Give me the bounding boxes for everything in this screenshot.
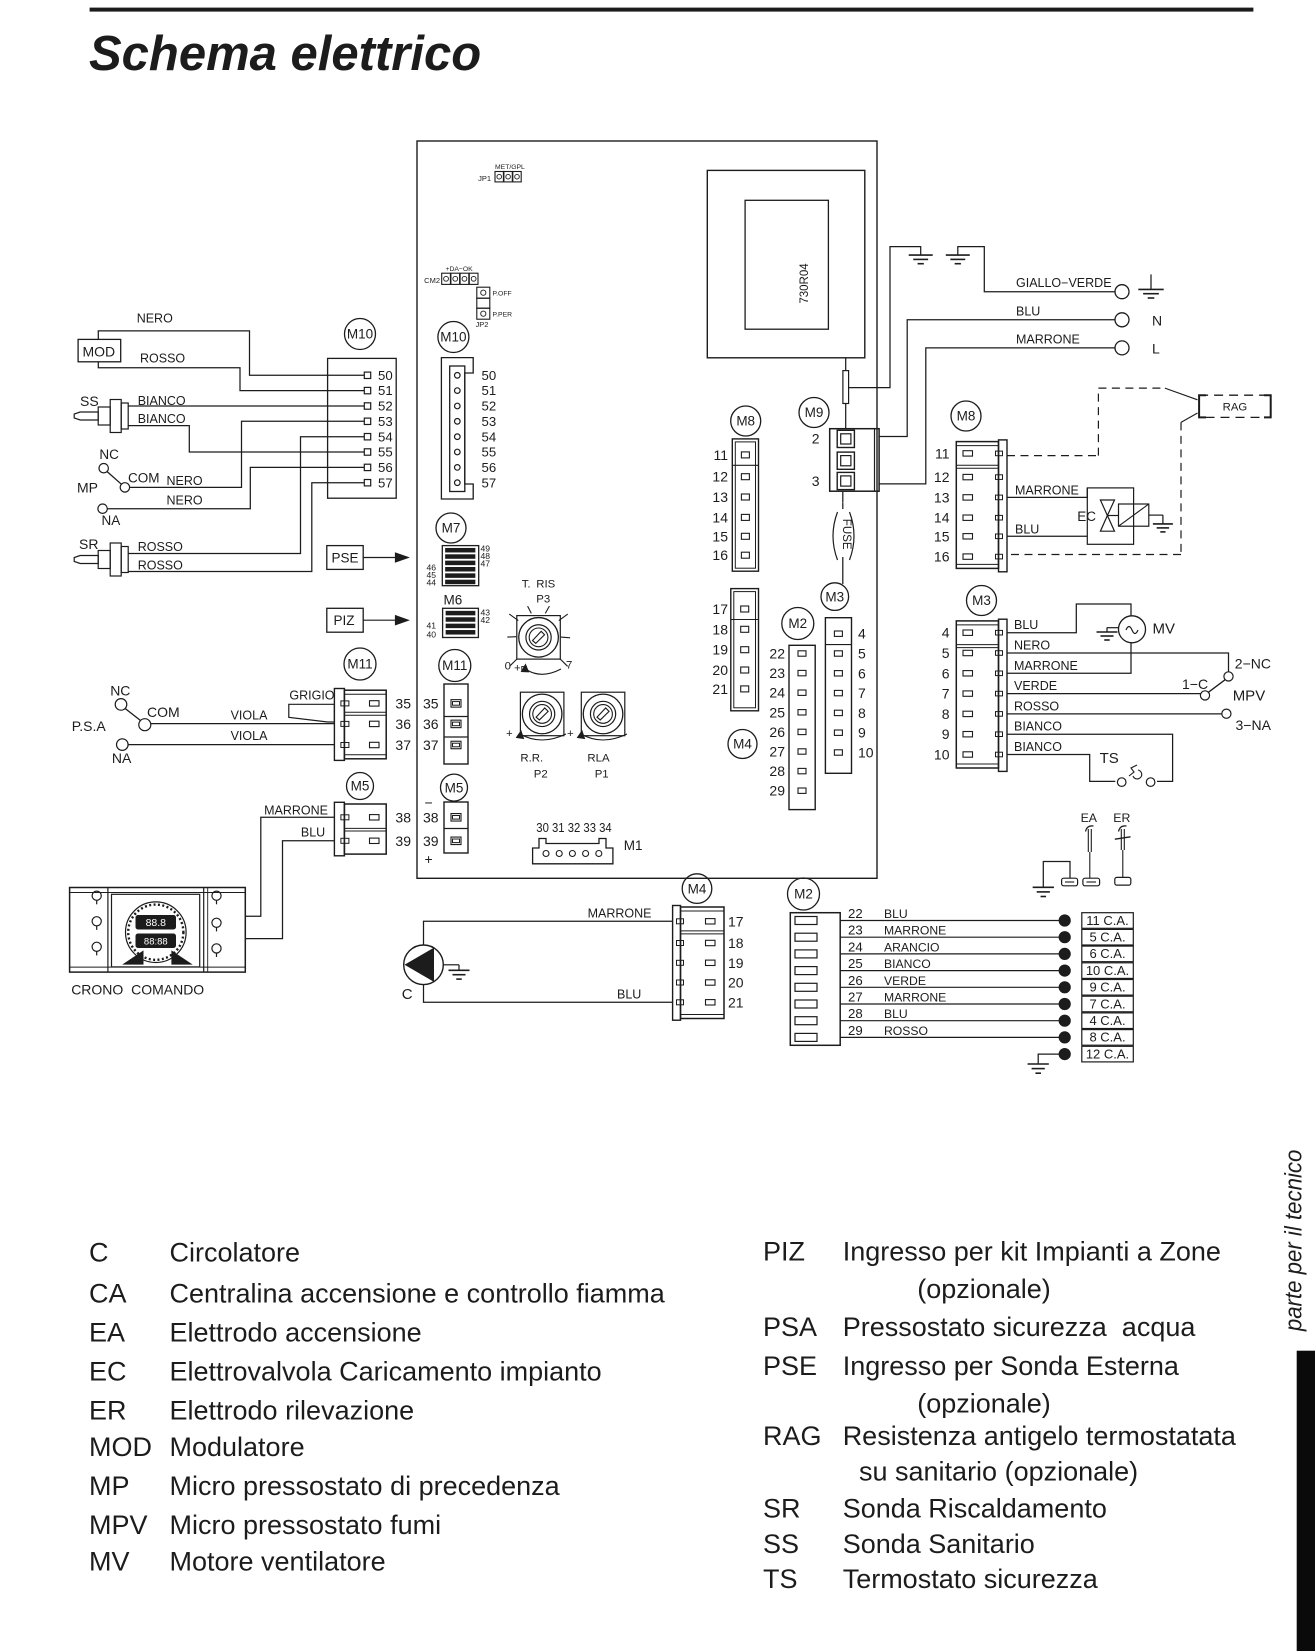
svg-text:4: 4 (858, 626, 866, 642)
connector M7 ribbon block (442, 546, 478, 586)
electrode EA (1086, 826, 1094, 878)
svg-text:JP1: JP1 (478, 174, 491, 183)
svg-text:57: 57 (482, 475, 497, 490)
svg-text:M2: M2 (788, 616, 807, 631)
svg-text:M3: M3 (972, 593, 991, 608)
wire NERO from MOD to M10 pin 50 (98, 331, 364, 375)
svg-text:su sanitario (opzionale): su sanitario (opzionale) (859, 1456, 1138, 1486)
svg-text:16: 16 (712, 547, 728, 563)
svg-text:Elettrovalvola Caricamento imp: Elettrovalvola Caricamento impianto (170, 1357, 602, 1387)
connector M4 harness pin numbers 17-21 (728, 913, 744, 1010)
wire M9 to fuse (842, 491, 844, 503)
potentiometer P1 (RLA) (581, 692, 625, 736)
connector M3 harness-side shell with pins (956, 619, 1007, 771)
connector block 8 C.A. (1082, 1030, 1134, 1046)
earth ground symbol 1 (909, 246, 933, 264)
arrow PIZ to board (363, 616, 408, 625)
svg-text:M6: M6 (444, 593, 463, 608)
svg-text:CRONO COMANDO: CRONO COMANDO (71, 982, 204, 998)
wire label ARANCIO (M2 pin 24) (884, 940, 940, 954)
svg-text:P1: P1 (595, 768, 609, 780)
switch MPV lever (1209, 680, 1226, 692)
svg-text:6: 6 (942, 665, 950, 681)
svg-text:37: 37 (395, 737, 411, 753)
connector label M8 (board side) (731, 406, 761, 436)
svg-text:7 C.A.: 7 C.A. (1089, 996, 1125, 1011)
connector label M11 (harness side) (344, 648, 376, 680)
potentiometer P2 (R.R.) (520, 692, 564, 736)
contact PSA COM (139, 704, 180, 731)
svg-text:P3: P3 (536, 594, 550, 606)
svg-text:12: 12 (934, 469, 950, 485)
svg-text:22: 22 (848, 906, 863, 921)
svg-text:11 C.A.: 11 C.A. (1086, 913, 1128, 928)
svg-text:28: 28 (769, 763, 785, 779)
svg-text:Elettrodo accensione: Elettrodo accensione (170, 1318, 422, 1348)
wire MARRONE from M2 pin 27 to CA node (840, 1003, 1059, 1005)
connector label M4 (harness side) (682, 874, 712, 904)
svg-text:ER: ER (1113, 811, 1130, 825)
svg-text:1−C: 1−C (1182, 676, 1208, 692)
svg-text:M10: M10 (347, 327, 373, 342)
svg-text:27: 27 (848, 990, 863, 1005)
connector M10 harness pins 50-57 with numbers (364, 368, 392, 490)
wire label BIANCO (SS top) (138, 394, 186, 408)
svg-text:26: 26 (769, 724, 785, 740)
label TS (1100, 750, 1119, 767)
svg-text:parte per il tecnico: parte per il tecnico (1281, 1150, 1308, 1332)
svg-text:ROSSO: ROSSO (138, 540, 183, 554)
svg-text:15: 15 (712, 528, 728, 544)
wire label MARRONE (pump) (588, 906, 652, 920)
wire label GIALLO-VERDE (1016, 276, 1112, 290)
pin number 24 (848, 939, 863, 954)
contact MPV 2-NC (1224, 656, 1271, 682)
svg-text:4 C.A.: 4 C.A. (1089, 1013, 1125, 1028)
svg-text:0: 0 (505, 661, 511, 673)
svg-text:Sonda Riscaldamento: Sonda Riscaldamento (843, 1494, 1107, 1524)
pin number 22 (848, 906, 863, 921)
wire label VIOLA (top) (231, 709, 268, 723)
wire BLU from M2 pin 22 to CA node (840, 920, 1059, 922)
wire NERO from MP COM to M10 pin 53 (130, 421, 365, 487)
svg-text:22: 22 (769, 646, 785, 662)
connector M3 harness pin numbers 4-10 (934, 625, 950, 763)
svg-text:39: 39 (423, 833, 439, 849)
wire BLU from M2 pin 28 to CA node (840, 1020, 1059, 1022)
wire label BLU (mains N) (1016, 304, 1040, 318)
svg-text:BLU: BLU (1015, 522, 1039, 536)
svg-text:14: 14 (712, 509, 728, 525)
svg-text:13: 13 (712, 489, 728, 505)
svg-text:PSA: PSA (763, 1312, 817, 1342)
wire VERDE from M3 pin 7 to MPV C (1007, 693, 1200, 695)
connector block 11 C.A. (1082, 913, 1134, 929)
jumper JP1 label MET/GPL (478, 164, 525, 183)
svg-text:29: 29 (769, 783, 785, 799)
svg-text:21: 21 (728, 994, 744, 1010)
connector block 7 C.A. (1082, 996, 1134, 1012)
svg-text:BLU: BLU (884, 1007, 908, 1021)
wire MARRONE from M2 pin 23 to CA node (840, 936, 1059, 938)
wire 12 C.A. to earth (1038, 1054, 1059, 1064)
junction dot pin 28 (1059, 1015, 1070, 1026)
label EA (1081, 811, 1098, 825)
svg-text:VERDE: VERDE (1014, 679, 1057, 693)
svg-text:25: 25 (769, 704, 785, 720)
connector M5 harness-side shell with pins (334, 802, 386, 856)
svg-text:M2: M2 (794, 887, 813, 902)
input PSE box (327, 546, 363, 570)
svg-text:MARRONE: MARRONE (884, 924, 946, 938)
fuse symbol (FUSE) (833, 503, 854, 560)
svg-text:T. RIS: T. RIS (522, 579, 556, 591)
svg-text:GRIGIO: GRIGIO (289, 689, 334, 703)
label CRONO COMANDO (71, 982, 204, 998)
svg-text:MOD: MOD (89, 1432, 152, 1462)
junction dot pin 27 (1059, 998, 1070, 1009)
wire label ROSSO (M2 pin 29) (884, 1024, 928, 1038)
terminal M9 pin numbers 2 and 3 (812, 431, 820, 490)
svg-text:M10: M10 (440, 330, 466, 345)
svg-text:Circolatore: Circolatore (170, 1237, 301, 1267)
connector M6 pin numbers 43-40 (426, 608, 490, 640)
svg-text:47: 47 (481, 558, 491, 568)
svg-text:28: 28 (848, 1006, 863, 1021)
svg-text:19: 19 (712, 642, 728, 658)
svg-text:730R04: 730R04 (799, 263, 811, 304)
svg-text:42: 42 (481, 615, 491, 625)
contact MPV 1-C (1182, 676, 1210, 700)
wire dashed RAG from M8 pin 11 (1007, 388, 1198, 456)
label MV (1153, 620, 1176, 637)
connector M5 board pin numbers 38-39 with polarity (423, 795, 439, 868)
wire NERO from MP NA to M10 pin 56 (107, 467, 364, 508)
connector label M9 (799, 398, 829, 428)
connector block 9 C.A. (1082, 980, 1134, 996)
wire MARRONE from M8 pin 13 to EC valve (1007, 488, 1087, 498)
svg-text:51: 51 (378, 383, 393, 398)
wire BIANCO from M3 pin 10 to TS (1007, 755, 1115, 782)
svg-text:3−NA: 3−NA (1236, 717, 1272, 733)
connector block 12 C.A. (1082, 1046, 1134, 1062)
connector label M5 (harness side) (347, 773, 374, 800)
svg-text:20: 20 (712, 662, 728, 678)
svg-text:BLU: BLU (884, 907, 908, 921)
wire fuse holder to earth ground 1 (849, 247, 921, 388)
svg-text:MET/GPL: MET/GPL (495, 164, 525, 171)
junction dot pin 26 (1059, 982, 1070, 993)
wire MARRONE from M3 pin 6 to MV (1007, 643, 1131, 674)
wire ROSSO from SR to M10 pin 54 (128, 437, 364, 554)
potentiometer P2 + arrow (506, 728, 566, 740)
svg-text:23: 23 (848, 923, 863, 938)
wire terminal lug to earth (1043, 862, 1070, 888)
wire label ROSSO (SR top) (138, 540, 183, 554)
svg-text:2−NC: 2−NC (1235, 656, 1271, 672)
label EC (1077, 509, 1096, 524)
svg-text:50: 50 (482, 368, 497, 383)
svg-text:TS: TS (763, 1564, 798, 1594)
svg-text:ROSSO: ROSSO (140, 351, 185, 365)
connector label M7 (436, 513, 466, 543)
wire fuse holder to M9 (845, 404, 847, 429)
wire label BIANCO (M2 pin 25) (884, 957, 931, 971)
svg-text:38: 38 (423, 809, 439, 825)
potentiometer P3 (T.RIS) with adjustment rays (507, 606, 570, 666)
wire label BLU (EC) (1015, 522, 1039, 536)
wire label BLU (M2 pin 28) (884, 1007, 908, 1021)
svg-text:MARRONE: MARRONE (884, 991, 946, 1005)
svg-text:VIOLA: VIOLA (231, 709, 268, 723)
svg-text:BLU: BLU (301, 826, 325, 840)
svg-text:MARRONE: MARRONE (1014, 659, 1078, 673)
svg-text:23: 23 (769, 665, 785, 681)
svg-text:Schema elettrico: Schema elettrico (89, 27, 481, 81)
svg-text:ROSSO: ROSSO (884, 1024, 928, 1038)
svg-text:MP: MP (89, 1471, 130, 1501)
earth ground at EC (1153, 515, 1173, 532)
wire VIOLA from PSA COM to M11 pin 36 (151, 723, 335, 725)
svg-text:16: 16 (934, 549, 950, 565)
svg-text:24: 24 (848, 939, 863, 954)
svg-text:5: 5 (942, 645, 950, 661)
svg-text:12: 12 (712, 469, 728, 485)
wire label BLU (M2 pin 22) (884, 907, 908, 921)
svg-text:20: 20 (728, 975, 744, 991)
svg-text:R.R.: R.R. (520, 753, 543, 765)
svg-text:CA: CA (89, 1279, 127, 1309)
earth ground at 12 C.A. (1028, 1064, 1049, 1073)
connector M4 harness-side shell with pins (673, 906, 724, 1021)
svg-text:Elettrodo rilevazione: Elettrodo rilevazione (170, 1395, 415, 1425)
svg-text:−: − (425, 795, 433, 811)
svg-text:SS: SS (80, 393, 99, 409)
wire label NERO (MP NA) (167, 493, 203, 507)
potentiometer P3 scale 0-7 and + arrow (505, 660, 573, 675)
svg-text:EA: EA (89, 1318, 125, 1348)
sensor SS label (80, 393, 99, 409)
svg-text:Motore ventilatore: Motore ventilatore (170, 1546, 386, 1576)
svg-text:44: 44 (426, 578, 436, 588)
svg-text:Micro pressostato di precedenz: Micro pressostato di precedenza (170, 1471, 561, 1501)
svg-text:37: 37 (423, 737, 439, 753)
sonda riscaldamento SR probe symbol (74, 543, 128, 576)
svg-text:PIZ: PIZ (334, 613, 355, 628)
svg-text:18: 18 (728, 935, 744, 951)
svg-text:P2: P2 (534, 768, 548, 780)
svg-text:NERO: NERO (137, 311, 173, 325)
wire BIANCO from M2 pin 25 to CA node (840, 970, 1059, 972)
page title 'Schema elettrico' (89, 27, 481, 81)
connector M11 harness-side shell with pins (334, 689, 386, 761)
fan motor MV (1119, 616, 1146, 643)
connector M4 board pin numbers 17-21 (712, 601, 728, 697)
junction dot pin 22 (1059, 915, 1070, 926)
svg-text:51: 51 (482, 383, 497, 398)
sonda sanitario SS probe symbol (74, 400, 128, 433)
svg-text:Micro pressostato fumi: Micro pressostato fumi (170, 1510, 442, 1540)
sidebar text parte per il tecnico (1281, 1150, 1308, 1332)
svg-text:MARRONE: MARRONE (588, 906, 652, 920)
svg-text:NERO: NERO (1014, 639, 1050, 653)
wire label MARRONE (mains L) (1016, 332, 1080, 346)
connector M5 board-side with 2 pins (444, 802, 468, 853)
svg-text:M5: M5 (351, 779, 370, 794)
svg-text:ARANCIO: ARANCIO (884, 940, 940, 954)
svg-text:26: 26 (848, 973, 863, 988)
svg-text:C: C (89, 1237, 109, 1267)
terminal block M9 with 3 screw terminals (830, 429, 879, 492)
junction dot pin 23 (1059, 932, 1070, 943)
connector M11 harness pin numbers 35-37 (395, 696, 411, 753)
wire GRIGIO flat cable to M11 pin 35 (289, 704, 335, 722)
wire transformer to fuse holder (845, 358, 847, 371)
junction dot 12 C.A. (1059, 1049, 1070, 1060)
modulator MOD box (78, 339, 121, 361)
svg-text:M4: M4 (688, 881, 707, 896)
pin number 26 (848, 973, 863, 988)
terminal lug ER (1115, 877, 1131, 885)
svg-text:Sonda Sanitario: Sonda Sanitario (843, 1529, 1035, 1559)
wire ROSSO from MOD to M10 pin 51 (98, 362, 364, 391)
connector M11 board-side with 3 pins (444, 684, 468, 764)
svg-text:25: 25 (848, 956, 863, 971)
svg-text:8: 8 (858, 705, 866, 721)
switch PSA lever (125, 708, 141, 720)
svg-text:27: 27 (769, 744, 785, 760)
svg-text:40: 40 (426, 630, 436, 640)
svg-text:12 C.A.: 12 C.A. (1086, 1046, 1129, 1061)
jumper JP2 labels P.OFF / P.PER / JP2 (476, 291, 513, 330)
svg-text:FUSE: FUSE (840, 519, 853, 550)
wire label NERO (MPV) (1014, 639, 1050, 653)
main PCB board outline (417, 141, 877, 878)
svg-text:MPV: MPV (89, 1510, 148, 1540)
jumper CM2 label +DA-OK (424, 266, 473, 285)
wire label BIANCO (TS left) (1014, 740, 1062, 754)
legend left column (89, 1237, 666, 1576)
svg-text:L: L (1152, 340, 1160, 356)
svg-text:BIANCO: BIANCO (138, 394, 186, 408)
svg-text:MP: MP (77, 479, 98, 495)
svg-text:Termostato sicurezza: Termostato sicurezza (843, 1564, 1099, 1594)
contact MP NA (98, 504, 120, 528)
svg-text:4: 4 (942, 625, 950, 641)
connector M7 pin numbers 49-44 (426, 544, 490, 588)
pin number 28 (848, 1006, 863, 1021)
svg-text:NC: NC (110, 683, 130, 699)
svg-text:14: 14 (934, 510, 950, 526)
junction dot pin 29 (1059, 1032, 1070, 1043)
jumper JP2 header (477, 287, 490, 319)
connector label M8 (harness side) (951, 401, 981, 431)
svg-text:ROSSO: ROSSO (1014, 699, 1059, 713)
wire VIOLA from PSA NA to M11 pin 37 (128, 744, 334, 746)
svg-text:M8: M8 (736, 414, 755, 429)
wire label VIOLA (bottom) (231, 729, 268, 743)
svg-text:Centralina accensione e contro: Centralina accensione e controllo fiamma (170, 1279, 666, 1309)
svg-text:39: 39 (395, 833, 411, 849)
micro pressostato MP label (77, 479, 98, 495)
svg-text:EC: EC (1077, 509, 1096, 524)
svg-text:M11: M11 (442, 658, 467, 673)
svg-text:BIANCO: BIANCO (884, 957, 931, 971)
connector M6 ribbon block (443, 608, 479, 637)
wire BLU from pump C to M4 pin 21 (424, 985, 673, 1003)
svg-text:36: 36 (395, 716, 411, 732)
connector M3 board-side with pins (825, 618, 851, 774)
svg-text:52: 52 (378, 399, 393, 414)
connector label M10 (harness side) (345, 319, 376, 350)
svg-text:EC: EC (89, 1357, 127, 1387)
solenoid valve EC (1087, 488, 1163, 544)
svg-text:BLU: BLU (617, 987, 641, 1001)
connector label M2 (board side) (782, 608, 814, 640)
wire label BLU (CRONO) (301, 826, 325, 840)
wire fuse to M3 label (842, 557, 844, 584)
svg-text:MV: MV (1153, 620, 1176, 637)
connector label M3 (board side) (821, 583, 849, 611)
thermostat TS contacts (1117, 765, 1155, 786)
svg-text:53: 53 (378, 414, 393, 429)
svg-text:19: 19 (728, 955, 744, 971)
svg-text:13: 13 (934, 489, 950, 505)
wire MARRONE from M9 pin 3 to terminal L (879, 348, 1115, 484)
svg-text:ROSSO: ROSSO (138, 559, 183, 573)
svg-text:88.8: 88.8 (146, 917, 167, 929)
svg-text:M11: M11 (347, 657, 372, 672)
svg-text:TS: TS (1100, 750, 1119, 767)
input PIZ box (327, 608, 363, 632)
svg-text:SS: SS (763, 1529, 799, 1559)
wire BLU from M8 pin 15 to EC valve (1007, 535, 1087, 537)
svg-text:7: 7 (858, 685, 866, 701)
pin number 29 (848, 1023, 863, 1038)
connector M10 board-side header with pins 50-57 (441, 358, 496, 499)
wire label NERO (MOD) (137, 311, 173, 325)
svg-text:11: 11 (935, 445, 950, 461)
contact MP NC (99, 447, 119, 473)
svg-text:11: 11 (713, 447, 728, 463)
svg-text:(opzionale): (opzionale) (917, 1274, 1051, 1304)
connector label M10 (board side) (438, 322, 469, 353)
connector block 4 C.A. (1082, 1013, 1134, 1029)
svg-text:NERO: NERO (167, 493, 203, 507)
svg-text:35: 35 (423, 695, 439, 711)
page title rule (90, 8, 1253, 11)
svg-text:56: 56 (482, 460, 497, 475)
jumper JP1 3-pin header (495, 172, 521, 182)
svg-text:BIANCO: BIANCO (1014, 720, 1062, 734)
svg-text:55: 55 (378, 445, 393, 460)
svg-text:ER: ER (89, 1395, 127, 1425)
svg-text:7: 7 (566, 660, 572, 672)
svg-text:P.OFF: P.OFF (493, 291, 512, 298)
svg-text:9 C.A.: 9 C.A. (1089, 980, 1125, 995)
svg-text:NA: NA (102, 513, 121, 528)
svg-text:18: 18 (712, 621, 728, 637)
svg-text:COM: COM (128, 470, 160, 485)
pin number 27 (848, 990, 863, 1005)
wire BLU from M3 pin 4 to MV (1007, 604, 1131, 633)
svg-text:10 C.A.: 10 C.A. (1086, 963, 1129, 978)
svg-text:M3: M3 (825, 589, 844, 604)
svg-text:BLU: BLU (1016, 304, 1040, 318)
svg-text:MARRONE: MARRONE (1015, 484, 1079, 498)
wire label GRIGIO (289, 689, 334, 703)
svg-text:PSE: PSE (332, 551, 359, 566)
